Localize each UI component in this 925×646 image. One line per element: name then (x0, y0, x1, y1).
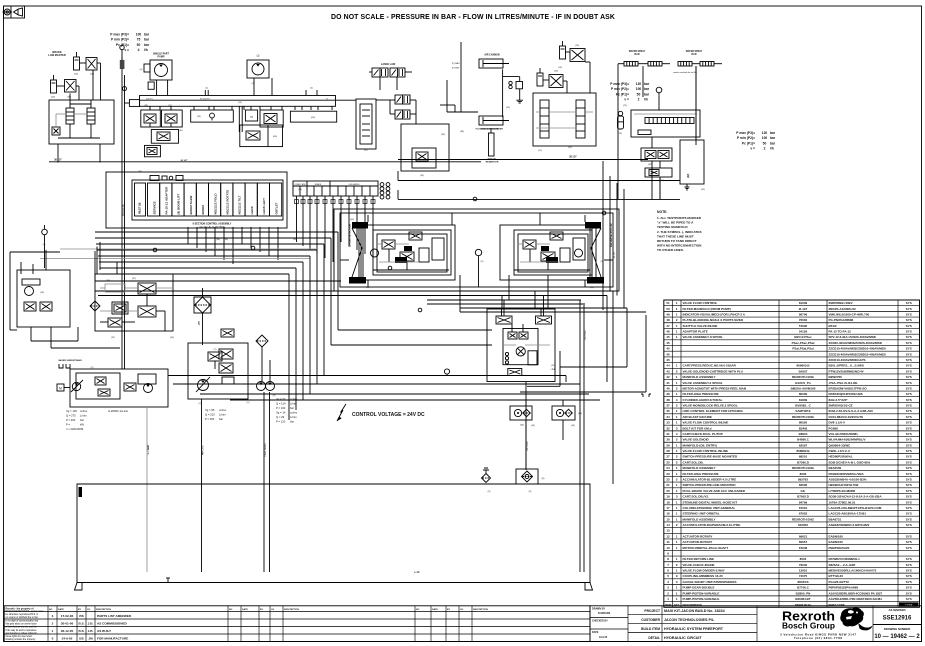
svg-text:44: 44 (666, 364, 670, 368)
svg-text:51: 51 (666, 301, 670, 305)
svg-text:Q = 114: Q = 114 (276, 402, 286, 406)
svg-text:CHECKED BY: CHECKED BY (592, 620, 608, 623)
return line right verticals (566, 300, 589, 572)
svg-text:45: 45 (666, 341, 670, 345)
svg-text:1076A-Z780Z.06.01: 1076A-Z780Z.06.01 (829, 500, 856, 504)
svg-text:bar: bar (144, 43, 150, 47)
svg-text:79040: 79040 (799, 563, 808, 567)
revision rows text (52, 614, 132, 641)
svg-text:SYS: SYS (906, 375, 912, 379)
svg-text:AAV58142DRL/72R-NSD74N00-SO481: AAV58142DRL/72R-NSD74N00-SO481 (829, 597, 883, 601)
svg-text:DV8-1.1/0-V: DV8-1.1/0-V (829, 421, 846, 425)
manifold assembly right (item 42) (631, 110, 700, 137)
svg-text:SYS: SYS (906, 574, 912, 578)
svg-text:17-02-06: 17-02-06 (61, 614, 74, 618)
svg-text:PUMP-PISTON-VARIABLE: PUMP-PISTON-VARIABLE (683, 591, 720, 595)
svg-text:PARTS LIST AMENDED: PARTS LIST AMENDED (97, 614, 132, 618)
svg-text:J.B.: J.B. (88, 622, 94, 626)
svg-text:drawing remains the property.: drawing remains the property. (6, 638, 37, 641)
svg-text:(33): (33) (506, 107, 510, 109)
tank outline (77, 484, 590, 583)
svg-text:DATE: DATE (592, 631, 599, 634)
bank section NOZZLE ROTATE (221, 183, 233, 216)
svg-text:31: 31 (666, 432, 670, 436)
svg-text:CH: CH (87, 609, 91, 611)
svg-text:SYS: SYS (906, 569, 912, 573)
connector pair below bar (239, 106, 242, 132)
svg-text:SYS: SYS (906, 347, 912, 351)
valve small lance raise (395, 95, 410, 104)
svg-text:SYS: SYS (906, 352, 912, 356)
svg-text:MANIFOLD ASSEMBLY: MANIFOLD ASSEMBLY (683, 375, 716, 379)
svg-text:(43): (43) (520, 425, 524, 427)
svg-text:ACTUATOR-ROTARY: ACTUATOR-ROTARY (683, 534, 713, 538)
svg-text:BOOM: BOOM (201, 205, 205, 215)
wire bar to valve assembly (336, 99, 357, 101)
wires signal table to bus (297, 196, 374, 262)
wires staircase to manifold (331, 330, 492, 345)
svg-text:(GD): (GD) (311, 117, 316, 119)
svg-text:2N/02S-A1/90RL/32: 2N/02S-A1/90RL/32 (829, 307, 857, 311)
suction lines to tank (147, 392, 270, 572)
valve bank outer enclosure (106, 172, 287, 228)
bank section LEGS LEFT (257, 183, 269, 216)
svg-text:30-01-06: 30-01-06 (61, 622, 74, 626)
svg-text:L/min: L/min (290, 415, 297, 419)
svg-text:29: 29 (666, 443, 670, 447)
svg-text:DRAWN BY: DRAWN BY (592, 607, 605, 610)
svg-text:AS COMMISSIONED: AS COMMISSIONED (97, 622, 128, 626)
svg-text:VALVE-MONOBLOCK-RELVE.2 SPOOL: VALVE-MONOBLOCK-RELVE.2 SPOOL (683, 404, 738, 408)
svg-text:34: 34 (666, 415, 670, 419)
svg-text:74075: 74075 (799, 574, 808, 578)
wire filter (202, 313, 204, 345)
svg-text:P =: P = (66, 423, 70, 427)
svg-text:CART.SOL.DB./V2.: CART.SOL.DB./V2. (683, 495, 710, 499)
svg-text:32: 32 (666, 426, 670, 430)
steering unit box (item 16/17) (17, 270, 70, 327)
svg-text:10: 10 (666, 546, 670, 550)
svg-text:LANCE LAW: LANCE LAW (381, 63, 396, 66)
relief valve in brake block (52, 127, 60, 135)
manifold box far right (item 42) (680, 140, 704, 190)
svg-text:11: 11 (666, 540, 670, 544)
spool valve top left (496, 300, 512, 324)
svg-text:CART.PRESS.REDUC.NO.06.0-21BAR: CART.PRESS.REDUC.NO.06.0-21BAR (683, 364, 737, 368)
svg-text:SYS: SYS (906, 392, 912, 396)
svg-text:(27): (27) (168, 105, 172, 107)
valve right 2 (X) (549, 75, 563, 88)
pressure spec text P1-P3 far right (736, 131, 776, 151)
svg-text:VALVE-CHECK-INLINE: VALVE-CHECK-INLINE (683, 563, 715, 567)
gauge on return line (444, 369, 449, 376)
RH drive motor assembly (item 40) (500, 222, 604, 284)
svg-text:(30): (30) (106, 280, 110, 282)
valve small lance lower (395, 110, 410, 119)
svg-text:808082.B: 808082.B (796, 449, 810, 453)
bank section BOOM (196, 183, 208, 216)
svg-text:B7562.D: B7562.D (797, 495, 810, 499)
small circles column (505, 352, 508, 364)
control valve on pump (95, 374, 156, 396)
wires lance to cylinder2 (440, 42, 478, 112)
wires steering cluster loop (31, 327, 120, 348)
svg-text:BS: BS (79, 614, 83, 618)
svg-text:CONTROL VOLTAGE = 24V DC: CONTROL VOLTAGE = 24V DC (352, 412, 425, 418)
svg-text:EABN/100: EABN/100 (829, 540, 844, 544)
svg-text:Vg = 125: Vg = 125 (66, 409, 77, 413)
svg-text:48: 48 (666, 318, 670, 322)
wire box to valves (585, 61, 590, 63)
svg-text:Rexroth - the property of: Rexroth - the property of (6, 607, 34, 610)
svg-text:L/T8RP6-2X/48/WR: L/T8RP6-2X/48/WR (829, 489, 857, 493)
pump 2 assembly (item 2) (188, 343, 248, 399)
svg-text:SYS: SYS (906, 517, 912, 521)
svg-text:(33): (33) (197, 116, 201, 118)
wires in box (536, 111, 540, 113)
svg-text:SYS: SYS (906, 506, 912, 510)
svg-text:LEGS LEFT: LEGS LEFT (262, 198, 266, 215)
gear pump double (item 3) (257, 382, 275, 391)
disclaimer text block bottom-left (6, 607, 45, 641)
svg-text:(42): (42) (701, 189, 705, 191)
svg-text:ASB330HB4A-4.0/100-B3%: ASB330HB4A-4.0/100-B3% (829, 477, 867, 481)
svg-text:TO OTHER LINES.: TO OTHER LINES. (657, 248, 684, 252)
svg-text:0: 0 (52, 637, 54, 641)
svg-text:NOTE.: NOTE. (657, 210, 667, 214)
svg-text:LINE: LINE (551, 369, 556, 371)
svg-text:v =: v = (624, 98, 629, 102)
svg-text:SYS: SYS (906, 472, 912, 476)
svg-text:(19): (19) (575, 45, 579, 47)
svg-text:(3): (3) (252, 83, 255, 85)
svg-text:P = 100: P = 100 (276, 406, 286, 410)
svg-text:80706: 80706 (799, 312, 808, 316)
svg-text:ASB18Z006BKD-2.8/250-M22: ASB18Z006BKD-2.8/250-M22 (829, 523, 870, 527)
svg-text:P = 400: P = 400 (66, 418, 76, 422)
svg-text:SYS: SYS (906, 381, 912, 385)
svg-text:DESCRIPTION: DESCRIPTION (473, 609, 488, 611)
pressure spec text P1-P3 left (110, 33, 150, 53)
cylinder right 1 (560, 41, 566, 59)
svg-text:20: 20 (666, 489, 670, 493)
svg-text:PBBPOK/6A20: PBBPOK/6A20 (829, 546, 850, 550)
svg-text:36 1/2": 36 1/2" (54, 159, 62, 162)
svg-text:(2): (2) (91, 367, 94, 369)
svg-text:CART.SOL.DB.: CART.SOL.DB. (683, 460, 704, 464)
svg-text:(20): (20) (51, 97, 55, 99)
svg-text:(8): (8) (542, 478, 545, 480)
svg-text:DATE: DATE (58, 608, 64, 611)
svg-text:MOTOR-ORBITAL-25mm SHAFT: MOTOR-ORBITAL-25mm SHAFT (683, 546, 729, 550)
svg-text:SWITCH-PRESSURE.LINE MOUNTED: SWITCH-PRESSURE.LINE MOUNTED (683, 483, 737, 487)
svg-text:46: 46 (666, 330, 670, 334)
svg-text:RETURN: RETURN (585, 330, 587, 340)
valve element A (540, 100, 549, 138)
svg-text:(16): (16) (40, 292, 44, 294)
svg-text:HYDRAULIC CIRCUIT: HYDRAULIC CIRCUIT (664, 636, 702, 640)
svg-text:EABN/160: EABN/160 (829, 534, 844, 538)
accumulator right (618, 111, 624, 129)
svg-text:2L197: 2L197 (799, 307, 808, 311)
svg-text:45: 45 (666, 358, 670, 362)
svg-text:INLET (8): INLET (8) (138, 202, 142, 214)
svg-text:ACCUMULATOR-DIAPHRAGM-2.8 LITR: ACCUMULATOR-DIAPHRAGM-2.8 LITRE. (683, 523, 742, 527)
svg-text:UNLOADING: UNLOADING (349, 183, 360, 186)
svg-text:(45): (45) (138, 171, 142, 173)
svg-text:FILTER-MANIFOLD (FROM PUMP): FILTER-MANIFOLD (FROM PUMP) (683, 307, 731, 311)
svg-text:38: 38 (666, 398, 670, 402)
svg-text:SYS: SYS (906, 432, 912, 436)
svg-text:SYS: SYS (906, 358, 912, 362)
svg-text:81009: 81009 (799, 301, 808, 305)
svg-text:(2): (2) (199, 403, 202, 405)
signal table (steering/brake/unloading) (293, 181, 378, 196)
svg-text:L/min: L/min (219, 413, 226, 417)
title block frame (590, 606, 922, 642)
bus gray wires (40, 249, 317, 259)
svg-text:CAL.SA.CAL.01.SM (REF.): CAL.SA.CAL.01.SM (REF.) (199, 226, 226, 229)
svg-text:8804%6: 8804%6 (797, 580, 808, 584)
svg-text:68201: 68201 (799, 455, 808, 459)
pump2 circle (196, 377, 210, 392)
svg-text:SSE12916: SSE12916 (883, 616, 912, 622)
svg-text:cc/rev: cc/rev (80, 409, 88, 413)
svg-text:BS: BS (79, 637, 83, 641)
wires valves (390, 99, 395, 101)
svg-text:NOZZLE TILT: NOZZLE TILT (238, 195, 242, 214)
dual brake valve block (item 20) (49, 100, 114, 144)
svg-text:SYS: SYS (906, 415, 912, 419)
svg-text:2: 2 (764, 147, 766, 151)
bank section PA-15-12 ADAPTER (160, 183, 172, 216)
svg-text:(5): (5) (601, 261, 604, 263)
svg-text:cc/rev: cc/rev (219, 408, 227, 412)
svg-text:REXROTH ENG: REXROTH ENG (792, 415, 815, 419)
svg-text:nozzle available for air filtn: nozzle available for air filtn (673, 71, 697, 74)
wire far-left vertical (10, 252, 60, 330)
svg-text:SYS: SYS (906, 523, 912, 527)
svg-text:kW: kW (80, 423, 84, 427)
svg-text:PGA26-63/TT2: PGA26-63/TT2 (829, 580, 850, 584)
svg-text:STEERING UNIT-ORBITAL: STEERING UNIT-ORBITAL (683, 512, 720, 516)
svg-text:SYS: SYS (906, 449, 912, 453)
svg-text:QH26B4-33/WC: QH26B4-33/WC (829, 443, 852, 447)
svg-text:(20): (20) (74, 74, 78, 76)
svg-text:GAUGE-SNUBT UNIT/ATMOSPHERES: GAUGE-SNUBT UNIT/ATMOSPHERES (683, 580, 737, 584)
svg-text:67952: 67952 (799, 512, 808, 516)
svg-text:(30): (30) (293, 239, 297, 241)
relief valve (33) (509, 81, 523, 89)
pump3 spec (276, 397, 298, 424)
below-enclosure bus horizontals (95, 281, 646, 312)
svg-text:8006: 8006 (800, 472, 807, 476)
valve brake 2 (X) (65, 80, 77, 93)
gauge between motors (475, 249, 481, 287)
svg-text:B9A6731: B9A6731 (829, 517, 842, 521)
svg-text:50: 50 (137, 43, 141, 47)
bank section LEGS (245, 183, 257, 216)
svg-text:DESCRIPTION: DESCRIPTION (96, 609, 111, 611)
valve lance A (372, 68, 388, 77)
svg-text:l/h: l/h (644, 98, 648, 102)
svg-text:AIR CANNON: AIR CANNON (484, 54, 500, 57)
svg-text:(43): (43) (531, 425, 535, 427)
svg-text:(43): (43) (571, 425, 575, 427)
svg-text:B9W2766: B9W2766 (829, 375, 843, 379)
svg-text:DATE: DATE (432, 608, 438, 611)
svg-text:B54/2: B54/2 (829, 324, 837, 328)
svg-text:80020: 80020 (799, 421, 808, 425)
svg-text:45: 45 (666, 335, 670, 339)
check valve mid (item 7) (208, 349, 222, 369)
bank section NOZZLE TILT (233, 183, 245, 216)
bank section SERVICE (148, 183, 160, 216)
svg-text:6032-2.5/LOV-S-S-A-2-A/85-A00: 6032-2.5/LOV-S-S-A-2-A/85-A00 (829, 409, 874, 413)
svg-text:62097: 62097 (799, 443, 808, 447)
svg-text:PUMP-GEAR-DOUBLE: PUMP-GEAR-DOUBLE (683, 586, 715, 590)
svg-text:76002: 76002 (799, 318, 808, 322)
gauge right (656, 87, 662, 95)
svg-text:B2860_PN: B2860_PN (796, 591, 811, 595)
svg-text:80006: 80006 (799, 392, 808, 396)
svg-text:SYS: SYS (906, 483, 912, 487)
svg-text:50: 50 (666, 307, 670, 311)
svg-text:AS BUILT: AS BUILT (97, 629, 111, 633)
svg-text:bar: bar (290, 420, 294, 424)
svg-text:2: 2 (638, 98, 640, 102)
svg-text:SYS: SYS (906, 404, 912, 408)
svg-text:LAW MASTER: LAW MASTER (48, 53, 66, 57)
wire (57, 85, 65, 87)
svg-text:VALVE-FLOW CONTROL-INLINE: VALVE-FLOW CONTROL-INLINE (683, 421, 729, 425)
svg-text:these rights for use herein.: these rights for use herein. (6, 635, 34, 638)
svg-text:CASE DRAIN: CASE DRAIN (264, 443, 267, 457)
link control element box (item 35) (401, 124, 449, 171)
svg-text:2. THE SYMBOL ⊥ INDICATES: 2. THE SYMBOL ⊥ INDICATES (657, 230, 702, 234)
svg-text:27: 27 (666, 455, 670, 459)
valve element B (576, 100, 585, 138)
svg-text:69621: 69621 (799, 534, 808, 538)
cylinder right 2 (537, 68, 543, 86)
svg-text:cc/rev: cc/rev (290, 411, 298, 415)
svg-text:SYS: SYS (906, 597, 912, 601)
svg-text:bar: bar (80, 418, 84, 422)
svg-text:8AB-2.5"X20": 8AB-2.5"X20" (829, 398, 849, 402)
svg-text:LAGC25-A6/185%A-175/91: LAGC25-A6/185%A-175/91 (829, 512, 867, 516)
inlet cell (135, 183, 146, 216)
svg-text:"x" WILL BE PIPED TO A: "x" WILL BE PIPED TO A (657, 221, 694, 225)
svg-text:(40): (40) (350, 219, 354, 221)
svg-text:25: 25 (666, 460, 670, 464)
svg-text:of their license etc etc. and: of their license etc etc. and the (6, 626, 38, 629)
drawing number block (873, 606, 922, 642)
parts list table (664, 300, 920, 607)
svg-text:(39): (39) (216, 239, 220, 241)
svg-text:SYS: SYS (906, 489, 912, 493)
svg-text:40: 40 (666, 386, 670, 390)
svg-text:.PSA..PSA./S./24.02L: .PSA..PSA./S./24.02L (829, 381, 859, 385)
svg-text:SYS: SYS (906, 466, 912, 470)
svg-text:(21): (21) (568, 147, 572, 149)
svg-text:SYS: SYS (906, 421, 912, 425)
svg-text:SYS: SYS (906, 540, 912, 544)
svg-text:SYS: SYS (906, 330, 912, 334)
svg-text:B9V12.PSec: B9V12.PSec (794, 335, 812, 339)
wire y367 (560, 366, 627, 368)
svg-text:B6904: B6904 (799, 432, 808, 436)
manifold box center outer (item 24) (487, 309, 555, 382)
revision table (4, 606, 590, 642)
svg-text:41: 41 (666, 381, 670, 385)
svg-text:P = 250: P = 250 (205, 417, 215, 421)
svg-text:MANIFOLD ASSEMBLY: MANIFOLD ASSEMBLY (683, 466, 716, 470)
svg-text:PLATE-BLANKING-NG6x1 X PORTS S: PLATE-BLANKING-NG6x1 X PORTS SIZED (683, 318, 744, 322)
svg-text:(5): (5) (481, 261, 484, 263)
svg-text:B4890.C: B4890.C (797, 438, 810, 442)
svg-text:J.B.: J.B. (88, 629, 94, 633)
svg-text:bar: bar (144, 38, 150, 42)
test point circles (153, 197, 606, 312)
wire branch to relief (503, 76, 520, 78)
box below right manifold (641, 148, 672, 161)
svg-text:Z2CD10-400AV/M03/Z2BD10-400AV/: Z2CD10-400AV/M03/Z2BD10-400AV/M03/ (829, 347, 886, 351)
svg-text:CART.CHECK.DUAL PL/TOP: CART.CHECK.DUAL PL/TOP (683, 432, 723, 436)
breather filter (482, 468, 491, 483)
elevate cylinder (479, 116, 509, 125)
valve assembly 2 spool (item 41) (356, 99, 376, 152)
svg-text:CW2L.L1/V.V..C: CW2L.L1/V.V..C (829, 449, 852, 453)
svg-text:(40): (40) (590, 287, 594, 289)
svg-text:75: 75 (137, 38, 141, 42)
spray bar 2 (678, 62, 722, 67)
svg-text:(40): (40) (366, 287, 370, 289)
svg-text:(28): (28) (144, 105, 148, 107)
bus wire bundle horizontal (staircase) (95, 232, 338, 274)
svg-text:45: 45 (666, 347, 670, 351)
svg-text:bar: bar (770, 131, 776, 135)
svg-text:P = 120: P = 120 (276, 420, 286, 424)
svg-text:60657: 60657 (799, 540, 808, 544)
svg-text:B12CS_Pn: B12CS_Pn (795, 381, 810, 385)
svg-text:HYDRAULIC SYSTEM FREEPORT: HYDRAULIC SYSTEM FREEPORT (664, 627, 724, 631)
svg-text:67001: 67001 (799, 506, 808, 510)
svg-text:DFBBK330P2BK%L/VBA: DFBBK330P2BK%L/VBA (829, 472, 865, 476)
svg-text:AS MARKED: AS MARKED (889, 608, 906, 612)
svg-text:BUILD ITEM: BUILD ITEM (641, 627, 660, 631)
svg-text:(39): (39) (199, 321, 201, 325)
svg-text:Vg = 95: Vg = 95 (205, 408, 215, 412)
svg-text:100: 100 (136, 33, 142, 37)
spray bar 1 (618, 62, 670, 67)
svg-text:SYS: SYS (906, 534, 912, 538)
svg-text:SYS: SYS (906, 563, 912, 567)
pump2 valves (219, 349, 234, 384)
svg-text:SYS: SYS (906, 495, 912, 499)
box below manifold 1 (28) (141, 110, 161, 127)
svg-text:SYS: SYS (906, 369, 912, 373)
gauge box below manifold (33) (191, 110, 234, 122)
svg-text:(14): (14) (618, 133, 622, 135)
connector blocks under signal table (295, 200, 376, 204)
bar left connector box (125, 100, 140, 107)
svg-text:12910: 12910 (799, 569, 808, 573)
svg-text:10 — 19462 — 2: 10 — 19462 — 2 (874, 634, 920, 640)
svg-text:WL64UMA4/26264MPBL/V: WL64UMA4/26264MPBL/V (829, 438, 866, 442)
box below manifold 1b (27) (162, 110, 183, 127)
svg-text:JM: JM (88, 637, 93, 641)
svg-text:v =: v = (124, 48, 129, 52)
